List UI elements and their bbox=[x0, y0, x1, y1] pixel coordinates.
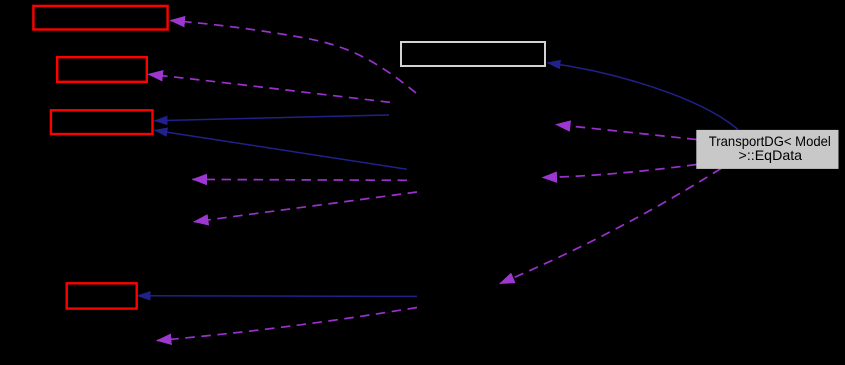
wire: dashed usage edge D3 from main node to bottom hidden node bbox=[500, 169, 721, 284]
wire: dashed usage edge E1 to top-left red box bbox=[171, 21, 417, 94]
node: bottom red truncated box bbox=[67, 283, 137, 308]
wire: solid inheritance edge B1 to third red box bbox=[155, 115, 390, 121]
svg-text:>::EqData: >::EqData bbox=[739, 147, 803, 163]
wire: solid inheritance edge B2 to third red box bbox=[155, 130, 407, 169]
node: top-left red truncated box bbox=[33, 6, 167, 30]
node: third red truncated box bbox=[51, 110, 153, 134]
node: white-bordered box top center bbox=[401, 42, 545, 66]
wire: dashed usage edge D1 from main node bbox=[556, 125, 697, 140]
wire: solid inheritance edge B3 to bottom red box bbox=[138, 295, 418, 298]
wire: dashed usage edge D2 from main node bbox=[543, 165, 697, 178]
wire: dashed usage edge D6 middle horizontal bbox=[193, 178, 408, 181]
wire: dashed usage edge D7 middle diagonal bbox=[194, 192, 417, 222]
node: main grey node TransportDG< Model >::EqData bbox=[696, 130, 838, 169]
node: second red truncated box bbox=[57, 57, 147, 82]
wire: dashed usage edge D4 bottom-left bbox=[157, 308, 417, 341]
wire: solid inheritance edge B0 main node to white box bbox=[548, 63, 739, 130]
wire: dashed usage edge E2 to second red box bbox=[149, 74, 391, 102]
